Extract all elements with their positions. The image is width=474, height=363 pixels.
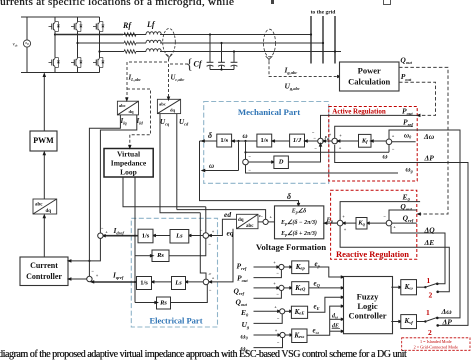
wire ed into electrical sum1 [210,219,237,235]
wire delta to voltage formation [200,141,299,205]
summing junction (damping) [243,159,249,165]
svg-text:−: − [209,288,212,293]
integrator block 1/s (speed) [257,134,272,147]
svg-text:Active Regulation: Active Regulation [332,108,386,116]
svg-text:Ug,abc: Ug,abc [285,82,300,92]
node phase B tap [76,42,78,44]
gain block K-omega [401,280,417,295]
box (dashed blue): Electrical Part [131,218,217,327]
svg-text:+: + [329,132,332,137]
svg-text:eω: eω [313,327,320,335]
IGBT Q2 (bottom, leg 1) [49,58,60,68]
resistor Rf phase B [124,41,136,45]
grid bus bar 2 [322,16,324,64]
transform block abc/dq (inverter current) [117,101,138,115]
summing junction epsilon (VF - VIL) [263,219,268,224]
wire sum to Kq [365,221,386,225]
svg-text:Qout: Qout [236,298,248,308]
summing junction Idref [98,233,103,238]
damping block D [274,156,289,169]
wire Ilq to Iqref sum [89,115,120,276]
svg-text:ε: ε [259,213,261,218]
wire dc source branch [26,17,28,73]
integrator 1/s (d) [138,229,153,243]
svg-text:1/s: 1/s [261,137,269,144]
wire dc bottom rail [21,72,100,74]
svg-text:Rs: Rs [159,299,167,306]
summing junction Iqref [87,276,92,281]
wire eQ to fuzzy [309,286,346,290]
svg-text:+: + [393,225,396,230]
wire omega0 to sum [254,328,283,337]
svg-text:Pout: Pout [237,274,248,284]
svg-text:Qref: Qref [234,287,245,297]
svg-text:Ucq: Ucq [160,118,170,126]
legend box (modes) [402,338,470,351]
svg-text:Lf: Lf [146,20,156,29]
svg-text:to the grid: to the grid [311,10,337,16]
svg-text:Reactive Regulation: Reactive Regulation [336,249,409,259]
wire dE into fuzzy [330,329,346,333]
svg-text:+: + [212,276,215,281]
svg-text:−: − [383,214,386,219]
gain block KeE [285,306,308,318]
capacitor Cf bank [207,35,238,71]
wire Qout feedback [254,291,282,299]
resistor Rf phase C [124,50,136,54]
summing junction eE [280,309,285,314]
block Virtual Impedance Loop [104,149,153,178]
wire tap to Rs (q) [134,281,159,304]
svg-text:+: + [273,260,276,265]
svg-text:Kf: Kf [361,137,368,144]
svg-text:Cf: Cf [194,60,203,69]
gain block Kf [359,134,372,147]
wire sum2 to Ls (q) [184,280,204,284]
summing junction eP [279,264,284,269]
svg-text:1: 1 [427,276,431,285]
wire ep to fuzzy [309,267,342,277]
svg-text:Electrical Part: Electrical Part [149,316,202,326]
wire omega0 input [392,141,416,143]
stray cropped glyph 1 [271,0,274,4]
svg-text:ed: ed [224,210,231,219]
svg-text:Ep∠(δ + 2π/3): Ep∠(δ + 2π/3) [280,230,317,237]
box (dashed blue): Mechanical Part [204,102,329,184]
svg-text:1: 1 [426,308,430,317]
svg-text:1/s: 1/s [142,232,150,239]
wire omega to 1/s [230,139,257,143]
wire Ls to 1/s (d) [151,234,170,238]
wire sum1 to Ls [187,234,203,238]
block 1/J [290,134,305,147]
gain block Kep [284,261,309,274]
cropped paragraph text at top [0,0,234,8]
box (dashed red): Active Regulation [329,107,417,182]
resistor feedback Rs (d) [152,250,169,262]
wire dashed IL branch to VIL [127,89,151,146]
wire Ucq vertical [160,114,200,213]
summing junction (Pref + Kf) [332,138,338,144]
wire PWM to inverter [43,72,47,131]
current sensor ellipse (IL,abc) [163,29,176,56]
block: Power Calculation [340,62,400,91]
wire Kf to sum [336,139,359,143]
wire E0 input [340,202,420,221]
wire dc top rail [21,16,100,18]
wire VIL out1 drop into sum1 [205,207,207,233]
svg-text:−: − [91,269,94,274]
transform block abc/dq (controller) [33,199,57,214]
svg-text:Rs: Rs [156,252,164,259]
inductor Lf phase B [146,40,161,43]
svg-text:−: − [248,168,251,173]
svg-text:ω0: ω0 [404,132,412,140]
svg-text:ωg: ωg [406,166,413,174]
wire Ild to Idref sum [100,115,136,233]
svg-text:dq: dq [238,218,244,223]
svg-text:−: − [313,136,316,141]
wire delta output (mech main row) [200,139,217,143]
wire inverter leg 1 [54,17,56,73]
svg-text:Pout: Pout [401,72,412,82]
svg-text:Mechanical Part: Mechanical Part [238,107,300,117]
svg-text:Virtual: Virtual [117,150,140,159]
wire Ls to 1/s (q) [150,280,172,284]
wire Rs (q) to sum2 [171,285,208,303]
wire Ep output [331,222,338,224]
node Cf phase C junction [233,50,235,52]
stray cropped glyph 2 [383,0,391,5]
svg-text:vdc: vdc [13,43,19,48]
inductor Lf phase C [146,49,161,52]
wire SW1 contact1 to DeltaQ [391,226,445,284]
wire mech sum to 1/J [303,139,318,143]
wire Ug feedback [254,314,283,324]
svg-text:δ: δ [287,192,291,201]
wire 1/J to 1/s [270,139,289,143]
svg-text:IL,abc: IL,abc [128,75,141,82]
svg-text:PWM: PWM [33,136,54,145]
svg-text:+: + [392,134,395,139]
summing junction Qref-Qout [386,220,392,226]
svg-text:D: D [278,159,284,166]
wire epsilon sum to dq/abc [258,221,263,223]
wire Qref input [392,222,417,224]
gain block Kq [356,218,367,230]
svg-text:Fuzzy: Fuzzy [357,292,379,302]
svg-text:−: − [312,130,315,135]
svg-text:Pout: Pout [402,107,413,117]
svg-text:−: − [277,316,280,321]
svg-text:eQ: eQ [314,280,321,288]
wire Pout feedback [254,270,282,278]
wire damping sum to D [248,160,276,164]
svg-text:ΔE: ΔE [424,238,435,247]
svg-text:abc: abc [246,224,254,229]
wire drop to electrical sum2 [200,213,211,279]
box (dashed red): Reactive Regulation [331,190,417,259]
svg-text:+: + [339,146,342,151]
wire Qref to sum [254,281,282,290]
svg-text:Qout: Qout [400,56,412,66]
wire Iqref output (thick) [93,281,137,283]
svg-text:−: − [208,242,211,247]
wire Pref to sum [254,260,282,269]
wire dashed Qout feedback [399,67,448,214]
wire fuzzy to Kvf [391,320,403,324]
svg-text:Rf: Rf [122,21,132,30]
block Fuzzy Logic Controller [344,277,393,334]
grid bus bar 3 [334,16,336,64]
svg-text:Iqref: Iqref [112,271,124,281]
wire Qout into reactive sum [389,210,417,220]
svg-text:+: + [96,273,99,278]
svg-text:Kq: Kq [357,220,365,227]
wire omegag feedback [254,338,283,348]
wire d-omega into fuzzy [330,318,346,322]
svg-text:Ig,abc: Ig,abc [284,66,298,76]
wire phase A [55,34,311,36]
wire dashed Pout feedback [399,82,436,115]
svg-text:ΔQ: ΔQ [424,226,436,235]
IGBT Q5 (top, leg 3) [93,22,104,32]
IGBT Q1 (top, leg 1) [49,22,60,32]
wire E0 to sum [254,305,282,314]
summing junction (swing equation) [318,138,324,144]
svg-text:δ: δ [208,131,212,140]
svg-text:abc: abc [119,103,126,108]
svg-text:1/s: 1/s [140,279,148,286]
inductor Lf phase A [146,32,161,35]
wire phase C [100,51,342,53]
svg-text:dω: dω [332,314,338,320]
node bus bar 2 / phase B [322,42,324,44]
node Cf phase A junction [209,33,211,35]
wire VIL output 2 (long vertical) [134,177,136,303]
wire Pref input [335,126,413,138]
node Cf phase B junction [220,42,222,44]
svg-text:Uc,abc: Uc,abc [171,75,185,82]
dc source vdc [13,40,31,48]
svg-text:ω0: ω0 [241,333,249,341]
wire tap to Rs (d) [134,235,155,258]
svg-text:−: − [276,271,279,276]
wire omega sum to Kf [369,139,386,143]
svg-text:−: − [248,154,251,159]
svg-text:2: 2 [429,291,433,300]
svg-text:+: + [274,305,277,310]
resistor feedback Rs (q) [157,297,171,309]
wire fuzzy to K-omega [391,285,403,289]
block Voltage Formation [275,206,324,239]
node omega tap1 [237,140,239,142]
wire Delta-omega line [389,130,460,318]
svg-text:Idref: Idref [113,226,125,236]
svg-text:+: + [270,215,273,220]
block Ls (d) [170,230,189,244]
block Current Controller [20,257,68,286]
svg-text:Ls: Ls [175,233,183,240]
svg-text:E0: E0 [402,193,411,203]
svg-text:Calculation: Calculation [348,77,390,87]
grid sensor ellipse (Ig,abc / Ug,abc) [264,29,276,57]
wire SW1 contact2 to DeltaE [340,226,449,292]
resistor Rf phase A [124,33,136,37]
wire Idref output (thick) [105,235,139,237]
svg-text:eq: eq [227,229,234,238]
svg-text:Ep∠(δ − 2π/3): Ep∠(δ − 2π/3) [280,219,317,226]
svg-text:eE: eE [314,303,320,311]
svg-text:1/s: 1/s [220,137,228,144]
wire D output to mech sum [288,144,320,162]
svg-text:Pref: Pref [403,118,413,128]
wire inverter leg 2 [77,17,79,73]
svg-text:Qref: Qref [403,214,414,224]
gain block KeQ [284,282,309,295]
wire eE to fuzzy [308,297,343,312]
label dE [332,323,340,329]
wire omega feedback to active reg sum [244,145,389,154]
svg-text:1/J: 1/J [293,137,302,144]
switch SW2 (Kvf output) [417,317,440,327]
figure caption [0,349,406,360]
wire VF to epsilon sum [268,221,274,223]
svg-text:abc: abc [35,203,43,208]
svg-text:+: + [342,214,345,219]
switch SW1 (K-omega output) [417,283,440,294]
wire inverter leg 3 [99,17,101,73]
svg-text:Voltage Formation: Voltage Formation [256,242,326,252]
grid bus bar 1 [310,16,312,64]
svg-text:ΔP: ΔP [424,154,435,163]
block PWM [30,131,57,151]
svg-text:Power: Power [358,66,381,76]
wire current controller to abc/dq [43,214,47,257]
transform block abc/dq (capacitor voltage) [157,99,180,113]
svg-text:Ucd: Ucd [179,118,189,126]
IGBT Q6 (bottom, leg 3) [93,58,104,68]
wire dashed Ig/Ug measurement to Power Calculation [266,56,273,61]
svg-text:2: 2 [428,328,432,337]
node omega tap2 [244,140,246,142]
wire e-omega to fuzzy [307,306,342,335]
svg-text:Loop: Loop [120,168,137,177]
summing junction Ep [337,220,343,226]
svg-text:−: − [314,146,317,151]
svg-text:+: + [339,133,342,138]
svg-text:dq: dq [170,108,176,113]
wire dashed IL,abc tap [127,59,169,98]
node phase A tap [54,33,56,35]
svg-text:Controller: Controller [26,272,62,281]
summing junction (omega0 - omega) [386,139,392,145]
svg-text:+: + [212,229,215,234]
wire Ep into VF [323,221,338,225]
wire active reg output Pin to mech sum [321,136,332,143]
wire Uc line to epsilon sum [177,210,266,220]
node Pout dashed/solid junction [418,114,420,116]
svg-text:−: − [276,292,279,297]
IGBT Q4 (bottom, leg 2) [71,58,82,68]
wire VIL output 1 [123,177,206,207]
block Ls (q) [172,277,186,290]
svg-text:ω: ω [243,132,248,140]
svg-text:abc: abc [159,102,166,107]
wire phase B [78,42,324,44]
wire eq into electrical sum2 [210,229,233,282]
wire Kq to Ep sum [341,221,356,225]
svg-text:Δω: Δω [441,307,453,316]
svg-text:Current: Current [30,261,58,270]
wire Pout into active regulation [321,115,418,138]
node bus bar 3 / phase C [334,50,336,52]
transform block dq/abc [237,214,259,228]
svg-text:Δω: Δω [423,132,435,141]
svg-text:+: + [344,227,347,232]
IGBT Q3 (top, leg 2) [71,22,82,32]
svg-text:Logic: Logic [357,301,378,311]
gain block Kvf [401,315,417,329]
wire Delta-P line [335,145,468,326]
svg-text:1 = Islanded Mode: 1 = Islanded Mode [420,339,452,344]
svg-text:+: + [273,281,276,286]
svg-text:−: − [101,226,104,231]
wire omega_g input [246,165,399,173]
svg-text:ω: ω [209,162,214,170]
svg-text:+: + [275,328,278,333]
wire Ucd vertical [176,114,178,210]
svg-text:2 = Grid-Connected Mode: 2 = Grid-Connected Mode [414,345,458,350]
summing junction e-omega [280,332,285,337]
wire omega to damping sum [245,141,247,159]
integrator block 1/s (angle) [217,134,232,147]
svg-text:Ls: Ls [174,279,182,286]
svg-text:ΔP: ΔP [442,318,453,327]
summing junction eQ [279,285,284,290]
integrator 1/s (q) [137,277,152,290]
svg-text:Controller: Controller [348,311,386,321]
summing junction electrical d-axis [203,233,209,239]
wire omega export (left) [201,141,239,172]
gain block Ke-omega [285,329,307,343]
svg-text:Pref: Pref [237,262,247,272]
svg-text:ω: ω [383,153,388,161]
svg-text:dq: dq [46,209,52,214]
svg-text:−: − [208,272,211,277]
svg-text:−: − [277,340,280,345]
node phase C tap [98,50,100,52]
svg-text:Impedance: Impedance [111,159,147,168]
svg-text:E0: E0 [240,308,249,318]
wire Rs (d) to sum1 [169,238,206,255]
wire dashed Uc,abc tap [167,64,188,101]
node Ilq/cc-line crossing [88,260,90,262]
svg-text:Ug: Ug [242,320,250,330]
wire Idref error to current controller [69,238,100,261]
wire Iqref error to current controller [67,277,87,281]
summing junction electrical q-axis [203,279,209,285]
svg-text:+: + [105,230,108,235]
svg-text:−: − [392,147,395,152]
svg-text:Ep∠δ: Ep∠δ [291,208,306,215]
svg-text:dq: dq [129,109,135,114]
wire abc/dq to PWM [43,151,47,199]
node bus bar 1 / phase A [310,33,312,35]
